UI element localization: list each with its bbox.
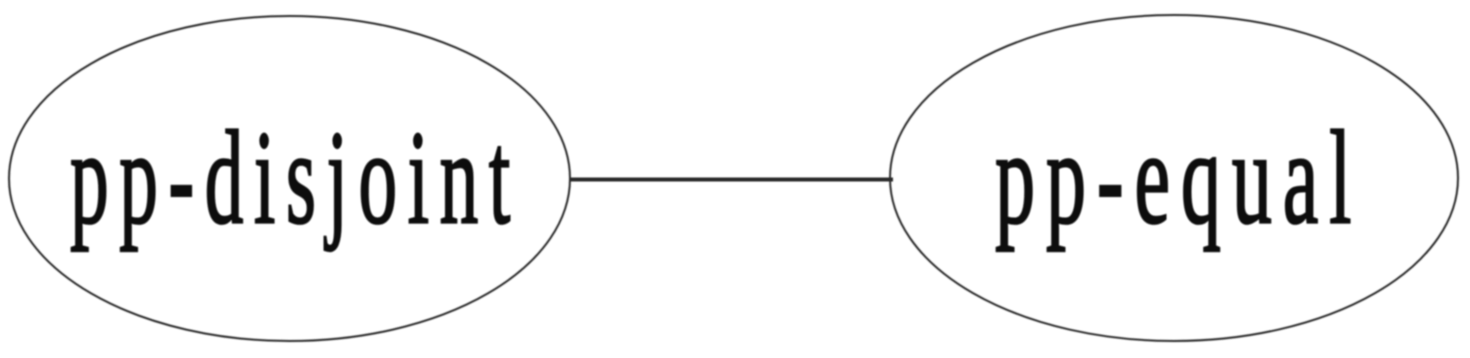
edge pp-disjoint to pp-equal (wire) <box>570 178 893 182</box>
svg-text:pp-equal: pp-equal <box>995 104 1362 252</box>
node pp-equal (right ellipse) <box>890 15 1458 341</box>
svg-text:pp-disjoint: pp-disjoint <box>70 103 521 252</box>
node pp-disjoint (left ellipse) <box>9 16 570 341</box>
